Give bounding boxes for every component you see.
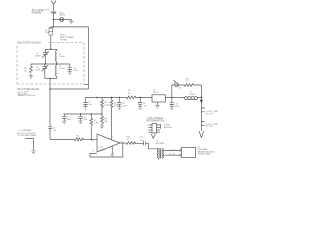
note: ant connector text: [32, 8, 50, 14]
connector J2 pins: [179, 149, 180, 156]
svg-text:TERMINAL: TERMINAL: [32, 12, 43, 15]
wire: [83, 139, 98, 141]
note: alternate text: [164, 125, 173, 130]
op-amp U1: [93, 134, 123, 153]
ground: [62, 121, 66, 124]
resistor R6: [74, 135, 84, 141]
diode D1: [48, 127, 57, 132]
svg-text:(-). TERMINAL: (-). TERMINAL: [19, 129, 33, 132]
transformer T1: [156, 141, 165, 160]
svg-text:2.5mH: 2.5mH: [59, 68, 65, 70]
svg-text:NEON: NEON: [59, 15, 65, 17]
capacitor C6: [78, 114, 87, 121]
svg-text:DETERMINATION: DETERMINATION: [146, 120, 165, 123]
ground: [138, 107, 142, 110]
svg-text:1M: 1M: [24, 71, 27, 73]
battery tap pair 1: [198, 108, 219, 116]
power rail down: [200, 85, 202, 131]
secondary wires: [163, 150, 179, 155]
svg-text:4.7uF: 4.7uF: [175, 106, 181, 108]
svg-text:4.7mH: 4.7mH: [189, 94, 195, 96]
node top bus: [53, 26, 55, 28]
wire: [120, 142, 126, 144]
arrow below header: [151, 134, 155, 138]
node filter out: [49, 78, 50, 79]
wire opamp input: [50, 139, 74, 141]
resistor R10: [126, 137, 136, 145]
resistor R9 (series): [126, 90, 136, 99]
svg-text:.01uF: .01uF: [35, 70, 41, 72]
ground stake arrow: [31, 151, 36, 154]
resistor R12: [179, 78, 202, 86]
wire to switch: [172, 85, 175, 97]
resistor R1: [24, 64, 32, 76]
arrowhead on rail: [200, 100, 203, 104]
node tank top: [50, 49, 52, 51]
svg-text:2.2M: 2.2M: [94, 123, 99, 125]
ground: [68, 72, 72, 75]
svg-text:FILTER: FILTER: [60, 39, 67, 41]
inductor L3: [172, 91, 202, 99]
ground stake lead: [25, 139, 33, 151]
svg-text:(-)COM: (-)COM: [169, 154, 176, 156]
opamp power lead: [111, 97, 113, 100]
capacitor C3: [68, 64, 79, 72]
note: wave trap filter text: [60, 35, 74, 42]
feedback wire: [90, 143, 123, 157]
wire tank bottom rail: [45, 78, 57, 80]
filter box (dashed): [17, 41, 84, 84]
resistor R9b: [101, 114, 108, 126]
wire tank top rail: [45, 48, 56, 50]
capacitor C2 (variable): [35, 64, 48, 79]
svg-text:.068uF: .068uF: [35, 55, 42, 57]
node ant: [53, 19, 55, 21]
svg-text:(+)AMP: (+)AMP: [169, 149, 176, 152]
svg-text:EL 7.5V: EL 7.5V: [206, 126, 214, 128]
capacitor C10: [169, 95, 181, 108]
capacitor C7: [83, 97, 92, 106]
svg-text:ALTERN.: ALTERN.: [164, 126, 173, 129]
note: 80m filter values text: [18, 88, 40, 97]
node noninv input: [91, 139, 93, 141]
ground: [78, 121, 82, 124]
note: gnd terminal text: [17, 129, 37, 137]
switch S1: [174, 80, 183, 89]
fuse F1: [45, 27, 53, 49]
capacitor C12: [140, 137, 146, 145]
svg-text:[40m FILTER VALUES]: [40m FILTER VALUES]: [18, 41, 41, 44]
note: coil torque text: [146, 118, 165, 123]
svg-text:LM741: LM741: [100, 150, 107, 152]
svg-text:1M: 1M: [104, 121, 107, 123]
mixer box: [182, 148, 196, 158]
rail end arrow: [199, 131, 204, 138]
resistor R8: [101, 97, 109, 114]
svg-text:EL 7.5V: EL 7.5V: [206, 114, 214, 116]
ground: [83, 107, 87, 110]
wire: [70, 19, 72, 21]
opamp output node: [122, 142, 124, 144]
ground: [29, 76, 33, 79]
capacitor C9: [138, 97, 148, 107]
antenna ANT1: [51, 1, 56, 11]
ground: [110, 154, 114, 157]
neon bulb NE-2: [59, 12, 65, 21]
coil determination header: [147, 124, 161, 134]
capacitor C5: [62, 114, 72, 121]
svg-text:.02uF: .02uF: [122, 105, 128, 107]
svg-text:.01uF: .01uF: [73, 70, 79, 72]
wire filter output down: [49, 79, 51, 140]
node lower bus: [80, 113, 81, 114]
node rail: [201, 97, 203, 99]
inductor L1: [56, 49, 66, 64]
wire: [52, 13, 54, 19]
note: mixer text: [198, 147, 216, 156]
wire top bus to wave trap: [50, 27, 89, 89]
capacitor C1 (variable): [35, 49, 50, 64]
svg-text:TO GROUND STAKE: TO GROUND STAKE: [18, 134, 37, 137]
upper bus wire: [86, 96, 153, 98]
svg-text:CAPACITORS 5mm: CAPACITORS 5mm: [18, 94, 36, 97]
ground: [117, 107, 121, 110]
regulator U2: [152, 90, 165, 106]
svg-text:1/4A: 1/4A: [45, 31, 50, 34]
ground: [100, 126, 104, 129]
wire to T1: [146, 143, 158, 149]
ground: [69, 21, 74, 24]
svg-text:78L05: 78L05: [153, 92, 159, 94]
inductor L2: [56, 64, 66, 79]
ground: [155, 105, 159, 108]
svg-text:2.5mH: 2.5mH: [59, 56, 65, 58]
ant connector J1: [51, 11, 56, 13]
svg-text:4.7M: 4.7M: [104, 104, 109, 106]
wire: [53, 18, 71, 20]
svg-text:BOURNS: BOURNS: [156, 143, 165, 145]
capacitor C8: [117, 97, 128, 107]
lower bus wire: [63, 113, 102, 115]
battery tap pair 2: [198, 117, 219, 129]
wire: [135, 142, 144, 144]
ground: [170, 107, 174, 110]
node upper bus: [96, 97, 97, 98]
node mid rail: [45, 63, 46, 64]
wire tank mid rail: [31, 63, 70, 65]
resistor R5 (bias): [90, 114, 99, 140]
node 172: [171, 97, 173, 99]
wire regulator out: [165, 96, 171, 98]
wire: [52, 19, 54, 27]
opamp ground lead: [111, 146, 113, 154]
svg-text:TO 600 OHMS: TO 600 OHMS: [198, 154, 212, 156]
resistor R7: [110, 100, 118, 140]
